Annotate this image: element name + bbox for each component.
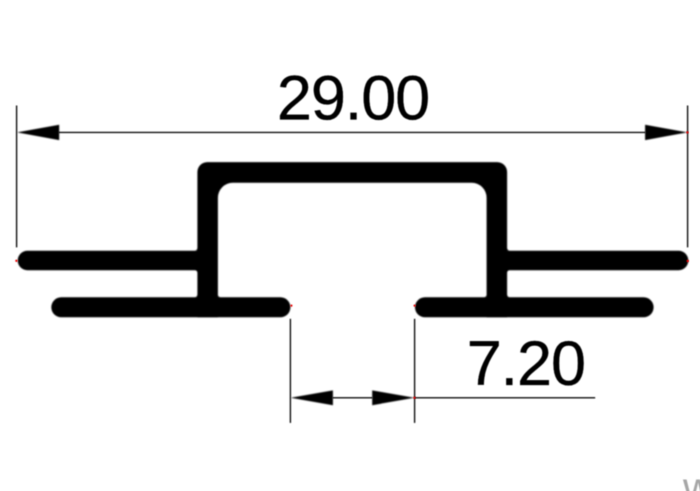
svg-text:7.20: 7.20	[467, 329, 585, 399]
svg-text:29.00: 29.00	[277, 63, 429, 133]
svg-text:w: w	[682, 464, 700, 491]
